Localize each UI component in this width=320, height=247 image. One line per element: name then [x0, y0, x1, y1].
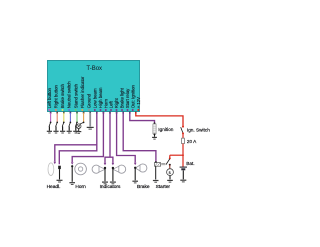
svg-text:Brake: Brake: [137, 184, 150, 190]
svg-text:Left button: Left button: [47, 87, 52, 108]
svg-text:Low beam: Low beam: [92, 88, 97, 108]
svg-text:Right: Right: [114, 97, 119, 108]
svg-text:T-Box: T-Box: [86, 66, 102, 72]
svg-text:Indicators: Indicators: [100, 184, 121, 190]
svg-text:Ignition: Ignition: [158, 127, 174, 132]
svg-text:20 A: 20 A: [187, 139, 197, 144]
svg-text:Out: Ignition: Out: Ignition: [130, 85, 135, 109]
svg-text:High beam: High beam: [98, 87, 103, 108]
svg-text:s: s: [169, 170, 171, 175]
svg-text:Neutral switch: Neutral switch: [67, 81, 72, 109]
svg-text:Ground: Ground: [86, 93, 91, 108]
svg-text:+ 12V: + 12V: [136, 97, 141, 108]
svg-text:Ign. Switch: Ign. Switch: [187, 127, 210, 132]
svg-text:Headl.: Headl.: [47, 184, 61, 190]
svg-text:Horn: Horn: [75, 184, 86, 190]
svg-text:Bat.: Bat.: [186, 161, 194, 166]
svg-text:Starter: Starter: [156, 184, 171, 190]
svg-text:Stand switch: Stand switch: [73, 83, 78, 108]
svg-text:Flasher indicator: Flasher indicator: [80, 76, 85, 108]
svg-text:Brake switch: Brake switch: [60, 83, 65, 108]
svg-text:Left: Left: [109, 100, 114, 108]
svg-text:Right button: Right button: [53, 85, 58, 109]
svg-text:Brake light: Brake light: [120, 87, 125, 108]
